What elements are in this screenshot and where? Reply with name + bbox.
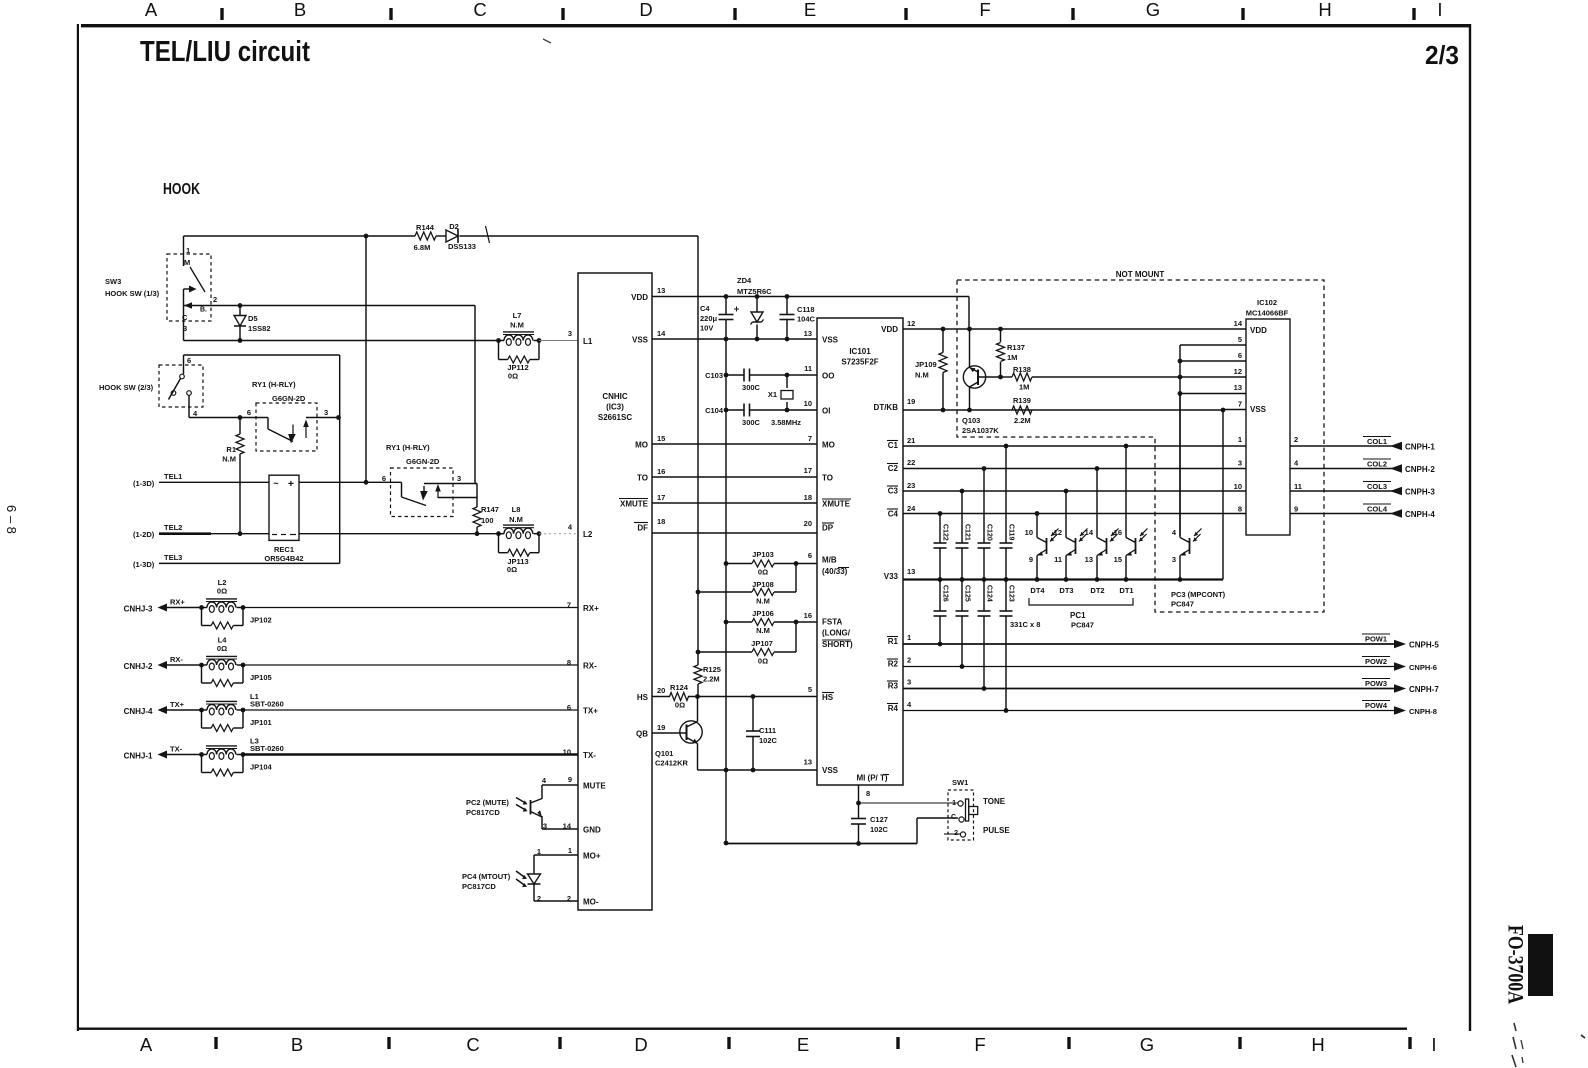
wire row C2 xyxy=(903,468,1246,470)
transformer L2 xyxy=(202,607,208,609)
wire VSS row xyxy=(652,338,817,340)
svg-text:PC1: PC1 xyxy=(1070,611,1086,620)
svg-text:MO: MO xyxy=(635,441,648,450)
svg-text:H: H xyxy=(1318,0,1331,20)
svg-text:16: 16 xyxy=(804,611,812,620)
svg-text:MO-: MO- xyxy=(583,898,599,907)
svg-text:JP106: JP106 xyxy=(752,609,774,618)
svg-text:(1-2D): (1-2D) xyxy=(133,530,155,539)
svg-text:CNPH-1: CNPH-1 xyxy=(1405,443,1435,452)
relay RY1 second dashed box xyxy=(391,468,454,517)
svg-text:6 – 8: 6 – 8 xyxy=(4,505,19,534)
svg-text:300C: 300C xyxy=(742,383,761,392)
optocoupler PC1 unit DT2 xyxy=(1096,469,1098,537)
svg-text:VSS: VSS xyxy=(822,766,839,775)
svg-text:R4: R4 xyxy=(888,704,899,713)
svg-text:I: I xyxy=(1431,1034,1436,1055)
svg-text:1: 1 xyxy=(907,633,911,642)
border frame top xyxy=(81,24,1471,27)
capacitor C126 xyxy=(939,580,941,612)
svg-text:1M: 1M xyxy=(1019,383,1029,392)
svg-text:9: 9 xyxy=(568,775,572,784)
svg-text:MO+: MO+ xyxy=(583,852,601,861)
svg-text:14: 14 xyxy=(1234,319,1243,328)
handwritten scribbles bottom right xyxy=(1512,1023,1517,1068)
svg-text:14: 14 xyxy=(657,329,666,338)
relay RY1 second contact xyxy=(401,482,403,497)
wire TO row xyxy=(652,476,817,478)
svg-text:100: 100 xyxy=(481,516,494,525)
diode D5 1SS82 xyxy=(238,303,243,308)
svg-text:20: 20 xyxy=(804,519,812,528)
svg-text:5: 5 xyxy=(808,685,812,694)
wire COL4 output xyxy=(1290,513,1402,515)
svg-text:12: 12 xyxy=(1054,528,1062,537)
svg-text:N.M: N.M xyxy=(915,371,929,380)
wire TX+ to CNHIC xyxy=(243,709,578,711)
svg-text:6.8M: 6.8M xyxy=(414,243,431,252)
node junction top rail x366 xyxy=(364,234,369,239)
svg-text:8: 8 xyxy=(866,789,870,798)
svg-text:R139: R139 xyxy=(1013,396,1031,405)
capacitor C118 104C xyxy=(786,297,788,315)
svg-text:L1: L1 xyxy=(583,337,593,346)
jumper JP112 xyxy=(498,341,500,360)
svg-text:102C: 102C xyxy=(759,736,778,745)
svg-text:SBT-0260: SBT-0260 xyxy=(250,744,284,753)
svg-text:3: 3 xyxy=(183,324,187,333)
svg-text:TEL1: TEL1 xyxy=(164,472,182,481)
svg-text:3: 3 xyxy=(568,329,572,338)
optocoupler PC3 MPCONT xyxy=(1179,394,1181,537)
wire relay1 pin3 xyxy=(306,417,340,419)
svg-text:D: D xyxy=(634,1034,647,1055)
svg-text:PC847: PC847 xyxy=(1171,600,1194,609)
svg-text:C120: C120 xyxy=(986,524,993,541)
svg-text:(LONG/: (LONG/ xyxy=(822,629,851,638)
svg-text:HS: HS xyxy=(637,693,649,702)
svg-text:2: 2 xyxy=(1294,435,1298,444)
wire row C3 xyxy=(903,490,1246,492)
capacitor C120 xyxy=(983,469,985,544)
svg-text:C: C xyxy=(466,1034,479,1055)
svg-text:1: 1 xyxy=(186,246,190,255)
wire VDD drop to IC101 rail xyxy=(968,297,970,330)
relay RY1 contact xyxy=(267,418,269,430)
svg-text:6: 6 xyxy=(567,703,571,712)
svg-text:CNPH-3: CNPH-3 xyxy=(1405,488,1435,497)
svg-text:CNPH-4: CNPH-4 xyxy=(1405,510,1435,519)
svg-text:3: 3 xyxy=(457,474,461,483)
svg-text:300C: 300C xyxy=(742,418,761,427)
svg-text:19: 19 xyxy=(907,397,915,406)
wire VSS vertical xyxy=(725,297,727,315)
diode D2 DSS133 xyxy=(446,230,458,242)
svg-text:XMUTE: XMUTE xyxy=(620,500,649,509)
svg-text:A: A xyxy=(140,1034,153,1055)
jumper JP103 xyxy=(752,560,774,567)
wire TX- to CNHIC xyxy=(243,753,578,755)
svg-text:TEL2: TEL2 xyxy=(164,523,182,532)
svg-text:20: 20 xyxy=(657,686,665,695)
black tab rectangle xyxy=(1528,934,1553,996)
svg-text:RX+: RX+ xyxy=(583,604,599,613)
wire JP107 branch xyxy=(795,622,797,652)
inductor L8 xyxy=(496,531,501,536)
svg-text:SW3: SW3 xyxy=(105,277,121,286)
svg-text:HOOK: HOOK xyxy=(163,181,200,198)
svg-text:C111: C111 xyxy=(759,726,776,735)
svg-text:(40/33): (40/33) xyxy=(822,567,848,576)
svg-text:9: 9 xyxy=(1294,505,1298,514)
svg-text:G6GN-2D: G6GN-2D xyxy=(406,457,440,466)
svg-text:QB: QB xyxy=(636,730,648,739)
svg-text:1: 1 xyxy=(568,846,572,855)
svg-text:C2: C2 xyxy=(888,464,899,473)
svg-text:HOOK SW (2/3): HOOK SW (2/3) xyxy=(99,383,154,392)
svg-text:16: 16 xyxy=(657,467,665,476)
svg-text:D5: D5 xyxy=(248,314,258,323)
svg-text:HOOK SW (1/3): HOOK SW (1/3) xyxy=(105,289,160,298)
svg-text:OR5G4B42: OR5G4B42 xyxy=(264,554,303,563)
optocoupler PC1 unit DT3 xyxy=(1065,491,1067,536)
svg-text:RX+: RX+ xyxy=(170,598,185,607)
svg-text:GND: GND xyxy=(583,826,601,835)
svg-text:VSS: VSS xyxy=(1250,405,1267,414)
svg-text:3.58MHz: 3.58MHz xyxy=(771,418,801,427)
wire DT/KB row xyxy=(903,409,1223,411)
svg-text:24: 24 xyxy=(907,504,916,513)
svg-text:17: 17 xyxy=(657,493,665,502)
svg-text:CNHIC: CNHIC xyxy=(602,392,628,401)
svg-text:6: 6 xyxy=(1238,351,1242,360)
svg-text:VDD: VDD xyxy=(631,293,648,302)
svg-text:C3: C3 xyxy=(888,487,899,496)
svg-text:6: 6 xyxy=(187,356,191,365)
svg-text:B: B xyxy=(294,0,306,20)
svg-text:VDD: VDD xyxy=(1250,326,1267,335)
wire TEL3 box right vertical xyxy=(339,355,341,563)
capacitor C111 102C xyxy=(752,697,754,732)
svg-text:13: 13 xyxy=(1085,555,1093,564)
svg-text:9: 9 xyxy=(1029,555,1033,564)
svg-text:13: 13 xyxy=(804,329,812,338)
wire COL3 output xyxy=(1290,490,1402,492)
rectifier REC1 OR5G4B42 xyxy=(269,475,299,540)
svg-text:JP103: JP103 xyxy=(752,550,774,559)
wire L7 to CNHIC pin 3 xyxy=(539,340,578,342)
svg-text:R137: R137 xyxy=(1007,343,1025,352)
svg-text:19: 19 xyxy=(657,723,665,732)
svg-text:11: 11 xyxy=(804,364,812,373)
capacitor C124 xyxy=(983,580,985,612)
capacitor C119 xyxy=(1005,446,1007,543)
svg-text:13: 13 xyxy=(907,567,915,576)
wire hook top rail xyxy=(184,235,416,237)
svg-text:CNPH-6: CNPH-6 xyxy=(1409,663,1437,672)
wire hook top rail drop to TEL1 xyxy=(365,236,367,482)
svg-text:PC817CD: PC817CD xyxy=(466,808,500,817)
svg-text:(1-3D): (1-3D) xyxy=(133,479,155,488)
svg-text:COL4: COL4 xyxy=(1367,505,1388,514)
op-amp U IC102 MC14066BF box xyxy=(1246,319,1290,535)
svg-text:3: 3 xyxy=(324,408,328,417)
svg-text:E: E xyxy=(804,0,816,20)
svg-text:N.M: N.M xyxy=(222,455,236,464)
wire rail to SW1 common xyxy=(916,818,918,844)
correction mark on wire xyxy=(486,226,490,243)
wire COL2 output xyxy=(1290,468,1402,470)
NOT MOUNT dashed region xyxy=(957,280,1324,612)
svg-text:S7235F2F: S7235F2F xyxy=(841,358,878,367)
svg-text:POW3: POW3 xyxy=(1365,679,1387,688)
wire V33 rail xyxy=(903,578,1223,580)
svg-text:15: 15 xyxy=(657,434,665,443)
svg-text:TEL3: TEL3 xyxy=(164,553,182,562)
svg-text:3: 3 xyxy=(907,678,911,687)
svg-text:B.: B. xyxy=(200,307,207,314)
wire POW4 output row xyxy=(903,710,1396,712)
border frame left xyxy=(77,24,79,1031)
svg-text:8: 8 xyxy=(1238,505,1242,514)
wire top rail down to HS node xyxy=(697,236,699,665)
svg-text:R144: R144 xyxy=(416,223,435,232)
svg-text:DT/KB: DT/KB xyxy=(874,403,899,412)
wire DF row xyxy=(652,532,817,534)
svg-text:HS: HS xyxy=(822,693,834,702)
transistor Q101 C2412KR xyxy=(680,721,702,743)
svg-text:C127: C127 xyxy=(870,815,888,824)
jumper JP105 xyxy=(201,665,203,683)
svg-text:0Ω: 0Ω xyxy=(758,568,768,577)
svg-text:220μ: 220μ xyxy=(700,314,718,323)
wire relay2 lower contact row xyxy=(438,497,477,499)
svg-text:JP107: JP107 xyxy=(751,639,773,648)
wire POW3 output row xyxy=(903,688,1396,690)
jumper JP113 xyxy=(498,534,500,553)
wire relay2 pin3 row xyxy=(424,483,477,485)
svg-text:MUTE: MUTE xyxy=(583,782,606,791)
svg-text:JP102: JP102 xyxy=(250,616,272,625)
svg-text:C124: C124 xyxy=(986,585,993,602)
wire V33 to IC102 VSS pin7 xyxy=(1222,410,1224,580)
svg-text:FSTA: FSTA xyxy=(822,618,843,627)
wire QB row xyxy=(652,732,681,734)
svg-text:12: 12 xyxy=(1234,367,1242,376)
border frame bottom xyxy=(78,1028,1407,1030)
wire SW3 pin 3 row xyxy=(184,340,499,342)
svg-text:C4: C4 xyxy=(700,304,710,313)
svg-text:RY1 (H-RLY): RY1 (H-RLY) xyxy=(252,380,296,389)
switch HOOK SW 2/3 contacts xyxy=(180,374,185,379)
svg-text:C103: C103 xyxy=(705,371,723,380)
capacitor C103 300C xyxy=(726,374,744,376)
optocoupler PC1 unit DT4 xyxy=(1036,514,1038,537)
svg-text:6: 6 xyxy=(247,408,251,417)
svg-text:JP104: JP104 xyxy=(250,763,273,772)
wire MI pin 8 xyxy=(858,785,860,819)
svg-text:Q101: Q101 xyxy=(655,749,673,758)
svg-text:(IC3): (IC3) xyxy=(606,403,624,412)
svg-text:N.M: N.M xyxy=(756,597,770,606)
resistor R139 2.2M xyxy=(1012,406,1032,414)
wire JP108 branch xyxy=(795,564,797,593)
svg-text:CNHJ-4: CNHJ-4 xyxy=(124,707,153,716)
svg-text:10: 10 xyxy=(1234,482,1242,491)
svg-text:PC4 (MTOUT): PC4 (MTOUT) xyxy=(462,872,511,881)
wire SW3 pin2 drop vertical xyxy=(474,306,476,484)
svg-text:C126: C126 xyxy=(942,585,949,602)
optocoupler PC2 photon arrows xyxy=(516,798,526,804)
switch SW3 arm xyxy=(190,267,205,292)
svg-text:0Ω: 0Ω xyxy=(675,701,685,710)
small mark above title area xyxy=(543,39,551,43)
svg-text:21: 21 xyxy=(907,436,915,445)
transistor Q103 2SA1037K xyxy=(963,366,985,388)
svg-text:DT1: DT1 xyxy=(1119,586,1133,595)
svg-text:C119: C119 xyxy=(1008,524,1015,540)
svg-text:SHORT): SHORT) xyxy=(822,640,853,649)
switch SW3 pin 2 wire xyxy=(184,305,476,307)
svg-text:POW1: POW1 xyxy=(1365,635,1387,644)
wire POW2 output row xyxy=(903,666,1396,668)
svg-text:7: 7 xyxy=(567,601,571,610)
svg-text:MTZ5R6C: MTZ5R6C xyxy=(737,287,772,296)
svg-text:0Ω: 0Ω xyxy=(508,372,518,381)
wire MO row xyxy=(652,443,817,445)
svg-text:SBT-0260: SBT-0260 xyxy=(250,700,284,709)
svg-text:N.M: N.M xyxy=(510,321,524,330)
wire VDD row CNHIC pin13 xyxy=(652,296,969,298)
svg-text:R3: R3 xyxy=(888,682,899,691)
svg-text:JP108: JP108 xyxy=(752,580,774,589)
svg-text:102C: 102C xyxy=(870,825,889,834)
wire XMUTE row xyxy=(652,502,817,504)
svg-text:0Ω: 0Ω xyxy=(758,657,768,666)
svg-text:PC817CD: PC817CD xyxy=(462,882,496,891)
svg-text:PC2 (MUTE): PC2 (MUTE) xyxy=(466,798,509,807)
svg-text:L2: L2 xyxy=(583,530,593,539)
capacitor C122 xyxy=(939,514,941,544)
svg-text:RX-: RX- xyxy=(170,655,183,664)
switch SW3 body lead xyxy=(183,289,185,341)
svg-text:10: 10 xyxy=(563,748,571,757)
resistor JP109 N.M xyxy=(939,353,947,373)
svg-text:2SA1037K: 2SA1037K xyxy=(962,426,999,435)
svg-text:R125: R125 xyxy=(703,665,721,674)
svg-text:10: 10 xyxy=(1025,528,1033,537)
svg-text:2: 2 xyxy=(213,295,217,304)
svg-text:10V: 10V xyxy=(700,324,713,333)
resistor R144 xyxy=(415,232,436,240)
svg-text:TX-: TX- xyxy=(583,751,596,760)
inductor L7 xyxy=(496,338,501,343)
capacitor C123 xyxy=(1005,580,1007,612)
resistor R138 1M xyxy=(1001,376,1013,378)
svg-text:C122: C122 xyxy=(942,524,949,541)
svg-text:NOT MOUNT: NOT MOUNT xyxy=(1116,270,1165,279)
svg-text:CNHJ-1: CNHJ-1 xyxy=(124,752,153,761)
svg-text:R2: R2 xyxy=(888,660,899,669)
svg-text:L8: L8 xyxy=(512,505,521,514)
wire IC102 control bus xyxy=(1180,344,1246,346)
svg-text:13: 13 xyxy=(804,758,812,767)
svg-text:2.2M: 2.2M xyxy=(703,675,720,684)
svg-text:C: C xyxy=(473,0,486,20)
svg-text:13: 13 xyxy=(1234,383,1242,392)
svg-text:OI: OI xyxy=(822,407,830,416)
svg-text:PULSE: PULSE xyxy=(983,826,1010,835)
capacitor C121 xyxy=(961,491,963,543)
svg-text:PC3 (MPCONT): PC3 (MPCONT) xyxy=(1171,590,1226,599)
svg-text:POW4: POW4 xyxy=(1365,701,1388,710)
svg-text:DP: DP xyxy=(822,524,834,533)
jumper JP102 xyxy=(201,608,203,626)
svg-text:18: 18 xyxy=(657,517,665,526)
svg-text:Q103: Q103 xyxy=(962,416,980,425)
svg-text:C4: C4 xyxy=(888,510,899,519)
resistor R147 100 xyxy=(476,498,478,508)
svg-text:22: 22 xyxy=(907,458,915,467)
svg-text:C118: C118 xyxy=(797,305,815,314)
svg-text:331C x 8: 331C x 8 xyxy=(1010,620,1040,629)
svg-text:14: 14 xyxy=(1085,528,1094,537)
jumper JP104 xyxy=(201,755,203,773)
svg-text:1SS82: 1SS82 xyxy=(248,324,271,333)
svg-text:I: I xyxy=(1437,0,1442,20)
resistor R124 0ohm xyxy=(670,693,689,701)
svg-text:2/3: 2/3 xyxy=(1425,40,1459,70)
svg-text:R138: R138 xyxy=(1013,365,1031,374)
svg-text:A: A xyxy=(145,0,158,20)
svg-text:C: C xyxy=(951,814,956,821)
svg-text:TX-: TX- xyxy=(170,745,183,754)
svg-text:11: 11 xyxy=(1294,482,1302,491)
svg-text:TO: TO xyxy=(822,474,833,483)
wire TEL3 box top xyxy=(184,354,340,356)
crystal X1 3.58MHz xyxy=(786,375,788,388)
svg-text:2: 2 xyxy=(907,656,911,665)
svg-text:F: F xyxy=(979,0,990,20)
svg-text:MC14066BF: MC14066BF xyxy=(1246,309,1289,318)
svg-text:C121: C121 xyxy=(964,524,971,541)
svg-text:3: 3 xyxy=(1238,459,1242,468)
svg-text:0Ω: 0Ω xyxy=(217,587,227,596)
svg-text:N.M: N.M xyxy=(509,515,523,524)
svg-text:0Ω: 0Ω xyxy=(217,644,227,653)
wire L8 to CNHIC pin 4 xyxy=(539,533,578,535)
svg-text:DF: DF xyxy=(637,524,648,533)
svg-text:G: G xyxy=(1146,0,1160,20)
wire TEL3 row xyxy=(159,562,340,564)
svg-text:C2412KR: C2412KR xyxy=(655,759,689,768)
svg-text:IC101: IC101 xyxy=(849,347,871,356)
svg-text:REC1: REC1 xyxy=(274,545,294,554)
svg-text:6: 6 xyxy=(382,474,386,483)
svg-text:CNHJ-3: CNHJ-3 xyxy=(124,605,153,614)
svg-text:COL2: COL2 xyxy=(1367,460,1387,469)
svg-text:H: H xyxy=(1311,1034,1324,1055)
svg-text:7: 7 xyxy=(808,434,812,443)
svg-text:E: E xyxy=(797,1034,809,1055)
svg-text:1M: 1M xyxy=(1007,353,1017,362)
op-amp U CNHIC IC3 S2661SC box xyxy=(578,273,652,910)
wire IC101 VSS row xyxy=(698,769,818,771)
svg-text:SW1: SW1 xyxy=(952,778,968,787)
svg-text:JP101: JP101 xyxy=(250,718,272,727)
svg-text:C123: C123 xyxy=(1008,585,1015,602)
switch SW3 moving contact arrow xyxy=(184,288,194,290)
